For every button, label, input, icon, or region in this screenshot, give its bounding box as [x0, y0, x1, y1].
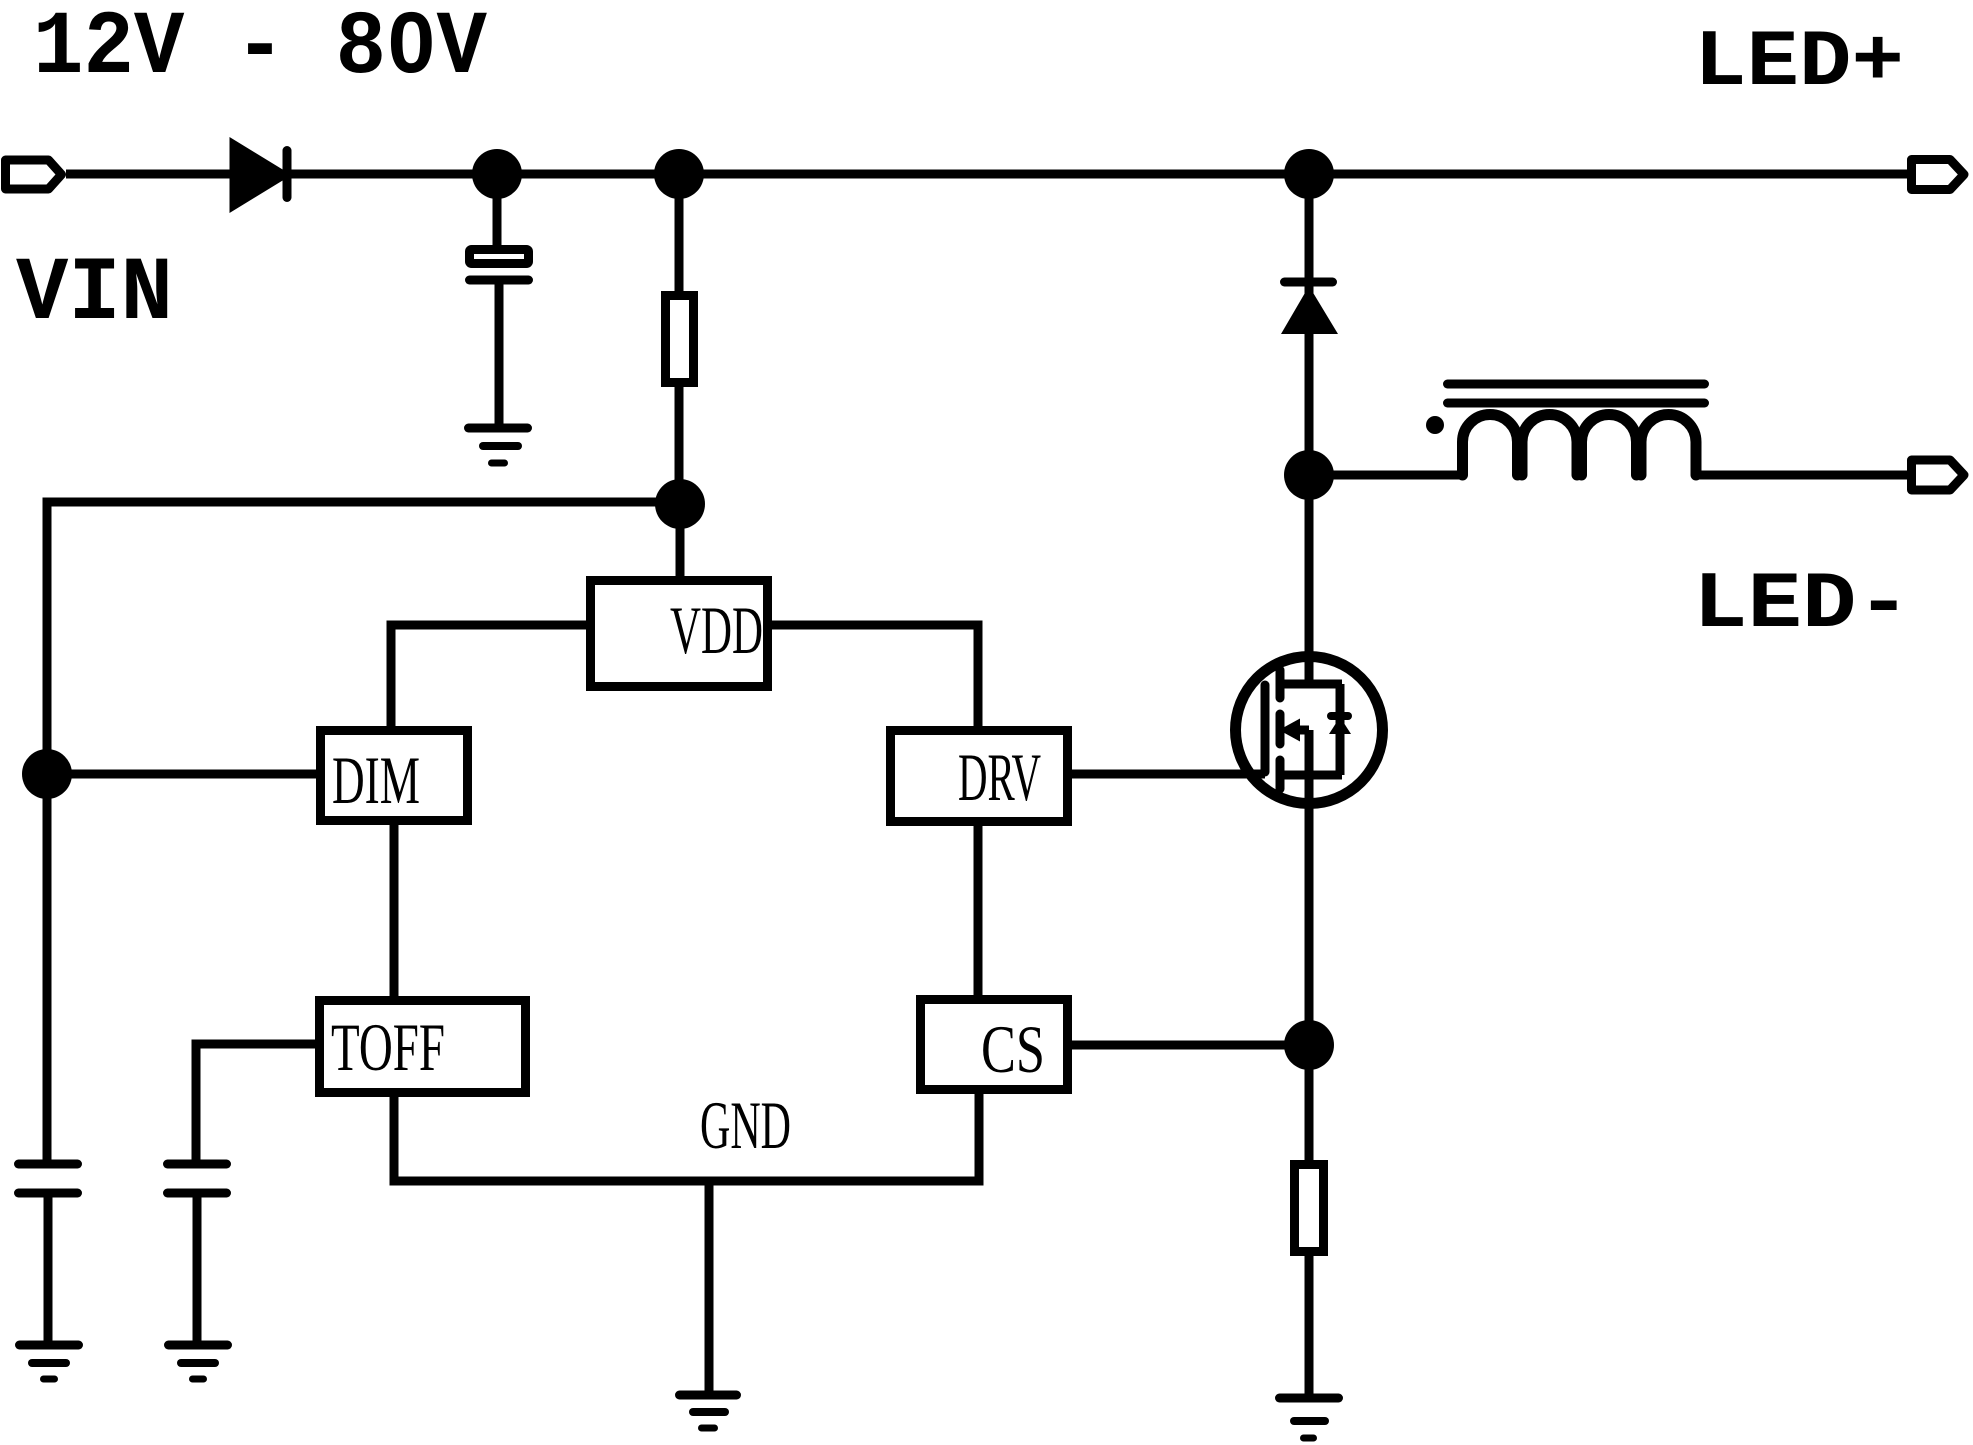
drain bar — [1283, 680, 1342, 689]
wire long feedback to left rail — [47, 502, 680, 774]
wire CS to sense node — [1072, 1041, 1309, 1050]
wire C1 to ground — [495, 280, 504, 426]
arrow line — [1294, 726, 1309, 735]
wire DRV to gate — [1072, 770, 1265, 779]
ground under C3 — [169, 1345, 228, 1379]
svg-text:LED+: LED+ — [1694, 18, 1904, 109]
inductor core lines — [1448, 384, 1705, 403]
capacitor C1 — [470, 250, 529, 281]
svg-text:VDD: VDD — [670, 592, 763, 668]
node junction inductor tap — [1284, 450, 1334, 500]
node junction left rail — [22, 749, 72, 799]
wire R1 to node — [675, 387, 684, 504]
wire VDD to DRV — [772, 625, 978, 726]
wire left rail down to capacitor C2 — [43, 774, 52, 1164]
node junction top rail C — [1284, 149, 1334, 199]
wire IC bottom rail TOFF-GND-CS — [394, 1094, 979, 1181]
wire DRV to CS — [974, 826, 983, 995]
svg-text:TOFF: TOFF — [331, 1009, 445, 1085]
svg-text:LED-: LED- — [1693, 560, 1911, 651]
wire C2 to ground — [44, 1193, 53, 1345]
gate bar — [1261, 685, 1270, 772]
ground under R2 — [1280, 1398, 1339, 1438]
wire DIM to TOFF — [390, 825, 399, 996]
capacitor C2 — [19, 1164, 78, 1193]
channel dashes — [1276, 670, 1285, 789]
wire top rail — [66, 170, 1907, 179]
ground under C2 — [20, 1345, 79, 1379]
IC pin box DIM — [321, 731, 468, 821]
wire VDD to DIM — [391, 625, 586, 726]
wire tap to inductor — [1309, 471, 1464, 480]
wire C3 to ground — [193, 1193, 202, 1345]
wire source rail — [1305, 730, 1314, 1160]
wire drain rail — [1305, 174, 1314, 684]
terminal LED- — [1912, 460, 1965, 490]
inductor L1 — [1463, 415, 1697, 476]
svg-text:GND: GND — [700, 1087, 791, 1163]
IC pin box VDD — [591, 581, 768, 687]
terminal VIN — [6, 160, 62, 189]
transistor Q1 MOSFET — [1236, 657, 1383, 804]
node junction top rail A — [472, 149, 522, 199]
ground under GND — [680, 1395, 737, 1428]
svg-text:CS: CS — [981, 1011, 1045, 1087]
IC pin box DRV — [891, 731, 1068, 822]
ground under C1 — [469, 428, 528, 463]
wire node to VDD — [676, 504, 685, 576]
source bar — [1283, 771, 1342, 780]
diode D2 — [1281, 282, 1338, 334]
node junction top rail B — [654, 149, 704, 199]
wire dot to C1 — [493, 174, 502, 245]
svg-text:VIN: VIN — [16, 244, 173, 346]
IC pin box TOFF — [320, 1001, 526, 1093]
arrowhead — [1279, 719, 1300, 742]
body diode branch — [1336, 684, 1345, 775]
node junction CS/sense — [1284, 1020, 1334, 1070]
node junction R1/VDD — [655, 479, 705, 529]
svg-text:12V - 80V: 12V - 80V — [33, 0, 487, 100]
wire inductor to LED- terminal — [1697, 471, 1907, 480]
IC pin box CS — [921, 1000, 1068, 1090]
wire dot to R1 — [675, 174, 684, 291]
wire left rail to DIM — [47, 770, 316, 779]
diode D1 — [234, 145, 287, 205]
resistor R1 — [666, 296, 694, 383]
svg-text:DIM: DIM — [332, 742, 420, 818]
wire R2 to ground — [1305, 1256, 1314, 1396]
inductor phase dot — [1426, 416, 1444, 434]
terminal LED+ — [1912, 160, 1965, 190]
svg-text:DRV: DRV — [958, 739, 1041, 815]
wire GND stub — [705, 1181, 714, 1392]
capacitor C3 — [168, 1164, 227, 1193]
resistor R2 — [1295, 1165, 1324, 1252]
wire TOFF to capacitor C3 — [196, 1044, 315, 1164]
